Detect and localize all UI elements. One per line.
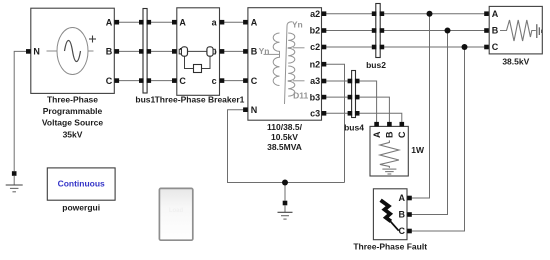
svg-text:c3: c3 bbox=[310, 109, 320, 119]
svg-text:Load: Load bbox=[169, 208, 184, 214]
svg-text:Voltage Source: Voltage Source bbox=[42, 118, 104, 128]
svg-text:A: A bbox=[492, 9, 499, 19]
svg-text:bus4: bus4 bbox=[344, 123, 364, 133]
svg-text:B: B bbox=[106, 47, 113, 57]
svg-text:A: A bbox=[251, 17, 258, 27]
svg-text:Yn: Yn bbox=[259, 46, 270, 56]
svg-text:bus1: bus1 bbox=[135, 95, 155, 105]
svg-text:b2: b2 bbox=[310, 26, 321, 36]
svg-text:38.5MVA: 38.5MVA bbox=[267, 142, 302, 152]
svg-text:A: A bbox=[106, 17, 113, 27]
svg-text:a2: a2 bbox=[310, 9, 320, 19]
svg-text:a3: a3 bbox=[310, 76, 320, 86]
svg-text:C: C bbox=[179, 76, 186, 86]
svg-text:Yn: Yn bbox=[292, 19, 303, 29]
svg-text:Continuous: Continuous bbox=[58, 178, 105, 188]
svg-text:C: C bbox=[492, 42, 499, 52]
svg-text:N: N bbox=[33, 47, 40, 57]
svg-text:Three-Phase Breaker1: Three-Phase Breaker1 bbox=[155, 95, 245, 105]
svg-text:B: B bbox=[251, 47, 258, 57]
svg-text:38.5kV: 38.5kV bbox=[502, 57, 529, 67]
svg-text:D11: D11 bbox=[293, 90, 308, 100]
svg-text:C: C bbox=[399, 226, 406, 236]
svg-text:c: c bbox=[212, 76, 217, 86]
svg-text:powergui: powergui bbox=[62, 203, 100, 213]
svg-text:B: B bbox=[492, 26, 499, 36]
svg-text:c2: c2 bbox=[310, 42, 320, 52]
svg-text:1W: 1W bbox=[411, 145, 425, 155]
svg-text:A: A bbox=[399, 193, 406, 203]
svg-text:110/38.5/: 110/38.5/ bbox=[267, 122, 303, 132]
svg-text:C: C bbox=[106, 76, 113, 86]
svg-text:b3: b3 bbox=[310, 92, 321, 102]
svg-text:Three-Phase: Three-Phase bbox=[47, 95, 98, 105]
svg-text:N: N bbox=[251, 105, 258, 115]
svg-text:A: A bbox=[179, 17, 186, 27]
svg-text:35kV: 35kV bbox=[63, 129, 83, 139]
svg-text:n2: n2 bbox=[310, 59, 321, 69]
svg-text:B: B bbox=[385, 131, 395, 138]
svg-text:Three-Phase Fault: Three-Phase Fault bbox=[353, 242, 427, 252]
svg-text:10.5kV: 10.5kV bbox=[271, 132, 298, 142]
svg-text:C: C bbox=[251, 76, 258, 86]
svg-text:bus2: bus2 bbox=[366, 60, 386, 70]
svg-text:A: A bbox=[372, 131, 382, 138]
svg-text:Programmable: Programmable bbox=[43, 106, 103, 116]
svg-text:C: C bbox=[397, 131, 407, 138]
svg-text:B: B bbox=[399, 210, 406, 220]
